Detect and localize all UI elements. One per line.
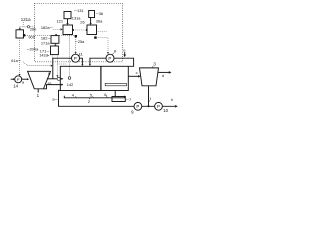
wire arrow into C left edge <box>53 28 61 30</box>
svg-text:a: a <box>22 80 25 85</box>
svg-text:4: 4 <box>72 92 75 97</box>
node junction below D <box>94 36 96 38</box>
sensor square 131 <box>64 12 71 19</box>
svg-text:∼36: ∼36 <box>96 11 104 16</box>
tower 1 trapezoid <box>28 71 51 89</box>
wire sensor to C dotted <box>68 35 70 77</box>
svg-text:∼25a: ∼25a <box>75 39 86 44</box>
wire junction to P8 dotted <box>97 38 108 53</box>
svg-text:P: P <box>108 56 111 61</box>
svg-text:36a: 36a <box>96 19 103 24</box>
controller square G <box>51 36 59 44</box>
divider wall <box>100 66 102 90</box>
brace under box 2 <box>64 96 124 98</box>
svg-text:26b: 26b <box>30 26 37 31</box>
wire V2 H to valve dotted <box>56 55 58 76</box>
wire 121a leader <box>22 22 24 26</box>
svg-text:61a∼: 61a∼ <box>11 58 21 63</box>
pump P10 <box>155 102 163 110</box>
svg-text:142a: 142a <box>39 53 48 58</box>
sensor square 36 <box>89 11 95 18</box>
wire P8 right run <box>114 58 134 66</box>
svg-text:d: d <box>162 73 164 78</box>
node junction at E <box>23 34 25 36</box>
svg-text:8: 8 <box>114 48 116 53</box>
wire G to H arrow <box>54 43 56 44</box>
wire suction riser to P11 <box>53 58 72 79</box>
wire 131 to C <box>67 19 69 24</box>
wire H bottom-left dotted to riser arrow <box>52 55 54 64</box>
wire arrow into G top <box>55 34 57 36</box>
svg-text:∼131: ∼131 <box>74 8 84 13</box>
svg-text:26: 26 <box>80 20 84 25</box>
wire tower 3 drain <box>148 86 150 107</box>
sensor circle 142 <box>68 77 71 80</box>
svg-text:h: h <box>171 97 173 102</box>
svg-text:c: c <box>136 70 138 75</box>
svg-text:f: f <box>150 96 152 101</box>
svg-text:900: 900 <box>28 34 35 39</box>
wire E down to pump 14 dotted <box>19 38 21 74</box>
svg-text:10: 10 <box>163 108 168 113</box>
wire C-D dotted <box>74 29 87 31</box>
svg-text:P: P <box>136 104 139 109</box>
svg-text:121: 121 <box>57 19 64 24</box>
wire pump 14 to tower 1 <box>22 78 28 80</box>
controller square E <box>16 30 24 38</box>
svg-text:2: 2 <box>88 99 90 104</box>
wire box2 to box 7 <box>114 91 116 97</box>
svg-text:P: P <box>74 56 77 61</box>
svg-text:182a∼: 182a∼ <box>41 25 53 30</box>
wire tower1 to box2 inlet 61 <box>47 78 57 80</box>
controller square H <box>51 46 59 55</box>
svg-text:121a: 121a <box>21 17 31 22</box>
wire stream c to tower 3 <box>128 75 138 77</box>
svg-text:6: 6 <box>104 92 106 97</box>
node junction on return line <box>148 105 150 107</box>
wire 61a control path <box>23 62 51 66</box>
svg-text:b: b <box>48 71 50 76</box>
tower 3 trapezoid <box>140 68 159 86</box>
pump P8 <box>106 54 114 62</box>
controller square C <box>63 25 73 35</box>
wire D right dotted <box>97 31 108 33</box>
vessel box 2 <box>60 66 128 90</box>
pump P9 <box>134 102 142 110</box>
svg-text:171a∼: 171a∼ <box>41 40 53 45</box>
wire arrow into E <box>19 27 21 29</box>
svg-text:∼7: ∼7 <box>126 97 131 102</box>
svg-text:5: 5 <box>90 92 92 97</box>
wire D to junction stub <box>94 35 96 37</box>
node sensor circle 260 <box>27 26 29 28</box>
wire box2 drain to return line <box>59 90 176 106</box>
svg-text:61: 61 <box>48 81 52 86</box>
svg-text:P: P <box>157 104 160 109</box>
controller dashed box 900 <box>35 3 123 62</box>
svg-text:9: 9 <box>131 110 134 115</box>
node junction above P11 <box>75 35 77 37</box>
wire P11 discharge into box2 <box>80 58 83 64</box>
svg-text:P: P <box>17 77 20 82</box>
label 1 <box>37 89 39 93</box>
wire E to junction dotted <box>25 35 74 37</box>
svg-text:3: 3 <box>153 62 156 67</box>
wire box2 top inlet from P8 <box>90 58 106 64</box>
svg-text:∼200a: ∼200a <box>26 46 39 51</box>
svg-text:11: 11 <box>79 51 83 56</box>
wire junction to P11 dotted <box>75 37 77 52</box>
svg-text:e: e <box>123 48 125 53</box>
wire 142a leader <box>47 55 49 56</box>
controller square D <box>87 25 97 35</box>
svg-text:142: 142 <box>67 82 74 87</box>
svg-text:1: 1 <box>37 93 40 98</box>
stream d arrow <box>158 71 169 73</box>
valve on inlet <box>57 77 60 80</box>
box 7 <box>112 97 125 102</box>
svg-text:a∼: a∼ <box>52 96 57 101</box>
wire tower1 bottom to box2 lower inlet <box>44 85 62 89</box>
pump 14 <box>11 78 14 80</box>
wire 36 to D <box>90 18 92 24</box>
pump P11 <box>72 54 80 62</box>
wire dotted line 121a <box>20 26 35 28</box>
svg-text:14: 14 <box>13 83 18 88</box>
wire branch dotted to sensor <box>57 63 66 65</box>
tray in right chamber <box>105 83 126 86</box>
